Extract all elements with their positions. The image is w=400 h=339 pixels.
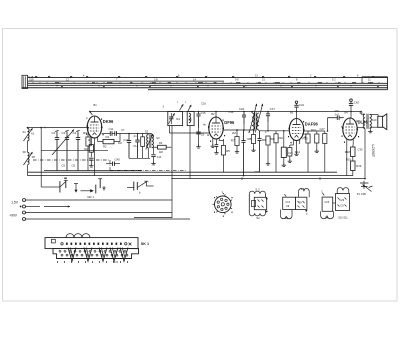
resistor R14 [288,148,292,157]
svg-text:C25: C25 [325,201,330,204]
svg-text:S8: S8 [23,150,27,154]
terminal LT+ [23,199,26,202]
terminal LT- [23,205,26,208]
wire bottom bus 3 [171,178,365,180]
capacitor C27 [323,134,327,144]
svg-text:S2: S2 [145,130,149,134]
resistor R2 [89,145,93,153]
svg-text:SK 1: SK 1 [141,242,149,246]
svg-text:4.5: 4.5 [301,187,305,191]
svg-text:C14: C14 [133,144,138,148]
resistor R16 [315,134,319,143]
svg-text:C13: C13 [157,156,162,159]
wire grid B4 [343,117,344,119]
wire B3 anode to bus [296,112,298,119]
svg-text:9 6: 9 6 [235,78,239,82]
resistor R19 [351,161,355,171]
ground C19 [216,151,218,153]
capacitor C28 [328,117,338,119]
terminal HT+ [23,218,26,221]
tube B1 DK96 [86,116,104,141]
ground transformer [369,129,371,131]
svg-text:R8: R8 [248,137,252,141]
resistor R7 [235,137,239,146]
svg-text:DAF96: DAF96 [305,122,319,127]
svg-text:C5: C5 [62,164,66,168]
resistor R10 [274,134,278,143]
wire S1 top [147,134,149,135]
svg-text:B1: B1 [94,103,98,107]
SK1 wafer contacts [59,248,128,262]
svg-text:R16: R16 [311,128,316,132]
wire S1 bottom [129,157,150,159]
resistor R13 [281,147,286,157]
aerial coil S1b [28,152,30,164]
capacitor C10 [89,157,93,159]
contact bar [99,179,101,188]
dial drive assembly strip [22,75,388,90]
svg-text:S8: S8 [32,155,36,159]
svg-text:C15: C15 [201,111,206,115]
svg-text:C6: C6 [72,164,76,168]
capacitor C42 [349,103,353,105]
svg-text:4n: 4n [203,123,206,127]
diode GR1 [81,190,92,192]
aerial coil S1a [28,128,30,140]
wire B4 pins [346,139,348,147]
svg-text:S10 S11: S10 S11 [338,216,348,219]
ground R8 [253,148,255,150]
svg-text:S10: S10 [372,118,377,122]
resistor R15 [306,134,310,143]
wire B2 anode to bus [215,112,217,118]
resistor R4 [158,145,167,149]
capacitor C19 [215,144,219,146]
tuning arrow S4 [180,104,184,110]
oscillator coil S3 [152,135,154,148]
svg-text:S4: S4 [176,117,180,121]
IF unit diagram S3 [249,191,267,216]
resistor R6 [221,146,225,156]
svg-text:P1 C1B: P1 C1B [357,192,366,196]
svg-text:R5: R5 [226,149,230,153]
svg-text:S3: S3 [156,136,160,140]
svg-text:R18: R18 [345,150,351,154]
terminal HT- [23,211,26,214]
svg-text:C29: C29 [340,199,345,202]
ground R16 [316,149,318,151]
switch SK1b [127,187,134,189]
capacitor C21 [243,130,245,141]
capacitor C40 [112,162,114,166]
ground B1 cathode [90,164,92,166]
svg-text:GR 1: GR 1 [87,195,94,199]
wire terminal drop [171,126,173,218]
resistor R3b [141,137,145,147]
svg-text:R19: R19 [356,164,362,168]
svg-text:R14: R14 [295,150,301,154]
capacitor C22 [259,131,261,139]
svg-text:A: A [44,126,46,130]
svg-text:C16: C16 [201,102,206,106]
wire oscillator bottom rail [44,170,142,172]
svg-text:R1: R1 [106,135,110,139]
svg-text:C: C [321,190,323,193]
SK1 wafer body [53,249,139,259]
svg-text:R2: R2 [103,145,107,149]
svg-text:C40: C40 [115,157,121,161]
svg-text:C12: C12 [123,138,129,142]
svg-text:L2X90T: L2X90T [371,145,375,158]
wire gang dashed link [33,159,110,161]
svg-text:S5: S5 [188,118,192,122]
svg-text:S6: S6 [285,216,289,220]
capacitor C4 [77,132,79,138]
resistor R1 [103,139,114,143]
svg-text:3 8: 3 8 [154,78,158,82]
capacitor C11 series pair [102,133,111,135]
svg-text:S9: S9 [325,216,329,220]
svg-text:R2: R2 [84,147,88,151]
resistor R8 [251,135,255,144]
loudspeaker [378,116,383,127]
capacitor C17 [267,112,269,114]
svg-text:C11: C11 [109,127,114,131]
svg-text:S2: S2 [256,216,260,220]
svg-text:2n7: 2n7 [335,113,340,116]
svg-text:B4: B4 [345,111,349,115]
ground B2 [212,144,214,146]
resistor R3 [86,137,90,146]
svg-text:4n: 4n [134,134,137,138]
svg-text:R7: R7 [231,139,235,143]
wire bottom bus 1 [28,171,338,173]
IF coil S6 [252,113,254,130]
wire transformer bottom [364,129,366,179]
tube B4 DL96 [342,118,360,143]
wire B2 pins [212,139,214,145]
svg-text:C42: C42 [354,100,360,104]
SK1 pin numbers [57,261,128,262]
switch unit SK1 frame [45,238,138,249]
resistor R9 [266,136,270,145]
svg-text:1.5V: 1.5V [11,201,19,205]
IF unit diagram S6 S7 [281,189,310,219]
resistor R18 [351,147,355,157]
wire transformer primary top to bus [360,112,362,115]
switch contact SW1 [45,186,60,188]
ground C9 [198,145,200,147]
svg-text:R4: R4 [159,141,163,145]
capacitor C13 [151,154,155,156]
capacitor C14 [137,134,139,141]
SK1 contact row [61,243,132,246]
wire B3 output line [327,118,329,131]
svg-text:5 18: 5 18 [28,75,34,79]
tube B2 DF96 [208,117,226,142]
capacitor C3 [66,132,68,138]
svg-text:C2: C2 [52,131,56,135]
capacitor C12 [128,134,130,141]
contact arrow [75,184,77,191]
gang tuning arrow [52,130,74,156]
wire B1 pins [90,138,92,147]
capacitor C9 [196,131,200,133]
svg-text:C3: C3 [62,131,66,135]
page border [3,29,398,302]
svg-text:A1: A1 [31,132,35,136]
capacitor C2 [56,132,58,138]
wire aerial line [28,127,90,129]
IF coil S7 [257,113,259,130]
capacitor C20 [243,112,245,116]
socket diagram B-base [215,196,232,213]
wire bottom bus 2 [28,175,353,177]
tuning arrows T2 [249,104,256,133]
svg-text:S1: S1 [23,130,27,134]
wire transformer to speaker [370,114,379,116]
jack P1 [363,181,365,189]
ground C13 [153,161,155,163]
svg-text:R19: R19 [346,158,351,162]
IF unit diagram S9 S10 S11 [321,188,350,219]
svg-text:B2: B2 [211,112,215,116]
wire T2 leads [251,112,253,114]
ground R7 [236,150,238,152]
svg-text:C24: C24 [299,103,304,107]
tube B3 DAF96 [288,119,306,144]
wire B3 pins [296,141,298,153]
svg-text:C13: C13 [286,201,291,204]
svg-text:1k8: 1k8 [159,151,164,154]
svg-text:DK96: DK96 [103,119,114,124]
svg-text:C20: C20 [239,107,245,111]
oscillator coil S2 [147,135,149,148]
svg-text:R9: R9 [262,138,266,142]
tuning arrow S5 [188,105,191,111]
wire HT top bus [90,111,362,113]
svg-text:4×5: 4×5 [114,260,119,264]
svg-text:C7: C7 [121,128,125,132]
wire coil links [27,141,29,153]
terminal C24 [295,101,297,103]
terminal C42 [350,99,353,102]
svg-text:+90V: +90V [9,214,18,218]
svg-text:C17: C17 [270,107,276,111]
output transformer S12 secondary [370,114,372,128]
svg-text:50k: 50k [271,137,276,141]
svg-text:R15: R15 [303,137,309,141]
wire B1 anode to top line [90,112,93,115]
svg-text:C30: C30 [358,148,363,152]
svg-text:S 3: S 3 [255,188,260,192]
coil on SK1 [66,234,90,238]
svg-text:C27: C27 [320,127,326,131]
wire S4 to B2 grid [169,126,171,133]
value labels [23,100,363,168]
svg-text:R10: R10 [278,136,284,140]
svg-text:DF96: DF96 [224,120,235,125]
ground R14 [289,159,291,161]
ground R13 [283,163,285,165]
ground R9 [267,162,269,164]
wire B1 filament drop [94,144,96,177]
svg-text:5 2: 5 2 [332,78,336,82]
output transformer S12 primary [363,114,365,128]
wire B2 anode line [223,129,251,131]
svg-text:C18: C18 [229,110,234,114]
capacitor C15 [198,112,200,115]
wire B4 anode [357,127,365,129]
IF box S5 [187,111,194,125]
IF box S4 [168,111,183,125]
svg-text:B3: B3 [290,111,294,115]
